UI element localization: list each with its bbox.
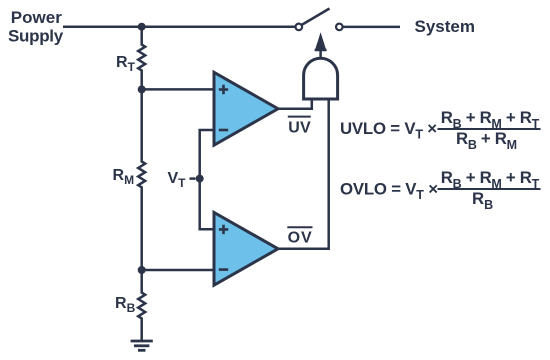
svg-text:RB + RM + RT: RB + RM + RT xyxy=(441,168,540,191)
svg-text:Supply: Supply xyxy=(8,27,64,46)
svg-text:System: System xyxy=(415,17,475,36)
svg-text:RT: RT xyxy=(116,54,136,74)
svg-text:RB + RM + RT: RB + RM + RT xyxy=(441,108,540,131)
svg-text:UV: UV xyxy=(288,119,311,136)
svg-text:OV: OV xyxy=(288,229,313,246)
svg-text:RB: RB xyxy=(472,189,493,212)
svg-text:VT: VT xyxy=(168,170,187,190)
svg-text:UVLO = VT ×: UVLO = VT × xyxy=(340,119,437,142)
svg-text:Power: Power xyxy=(11,8,62,27)
svg-text:RB + RM: RB + RM xyxy=(456,129,517,152)
svg-text:RM: RM xyxy=(113,167,135,187)
svg-text:RB: RB xyxy=(115,295,136,315)
svg-text:OVLO = VT ×: OVLO = VT × xyxy=(340,180,438,203)
